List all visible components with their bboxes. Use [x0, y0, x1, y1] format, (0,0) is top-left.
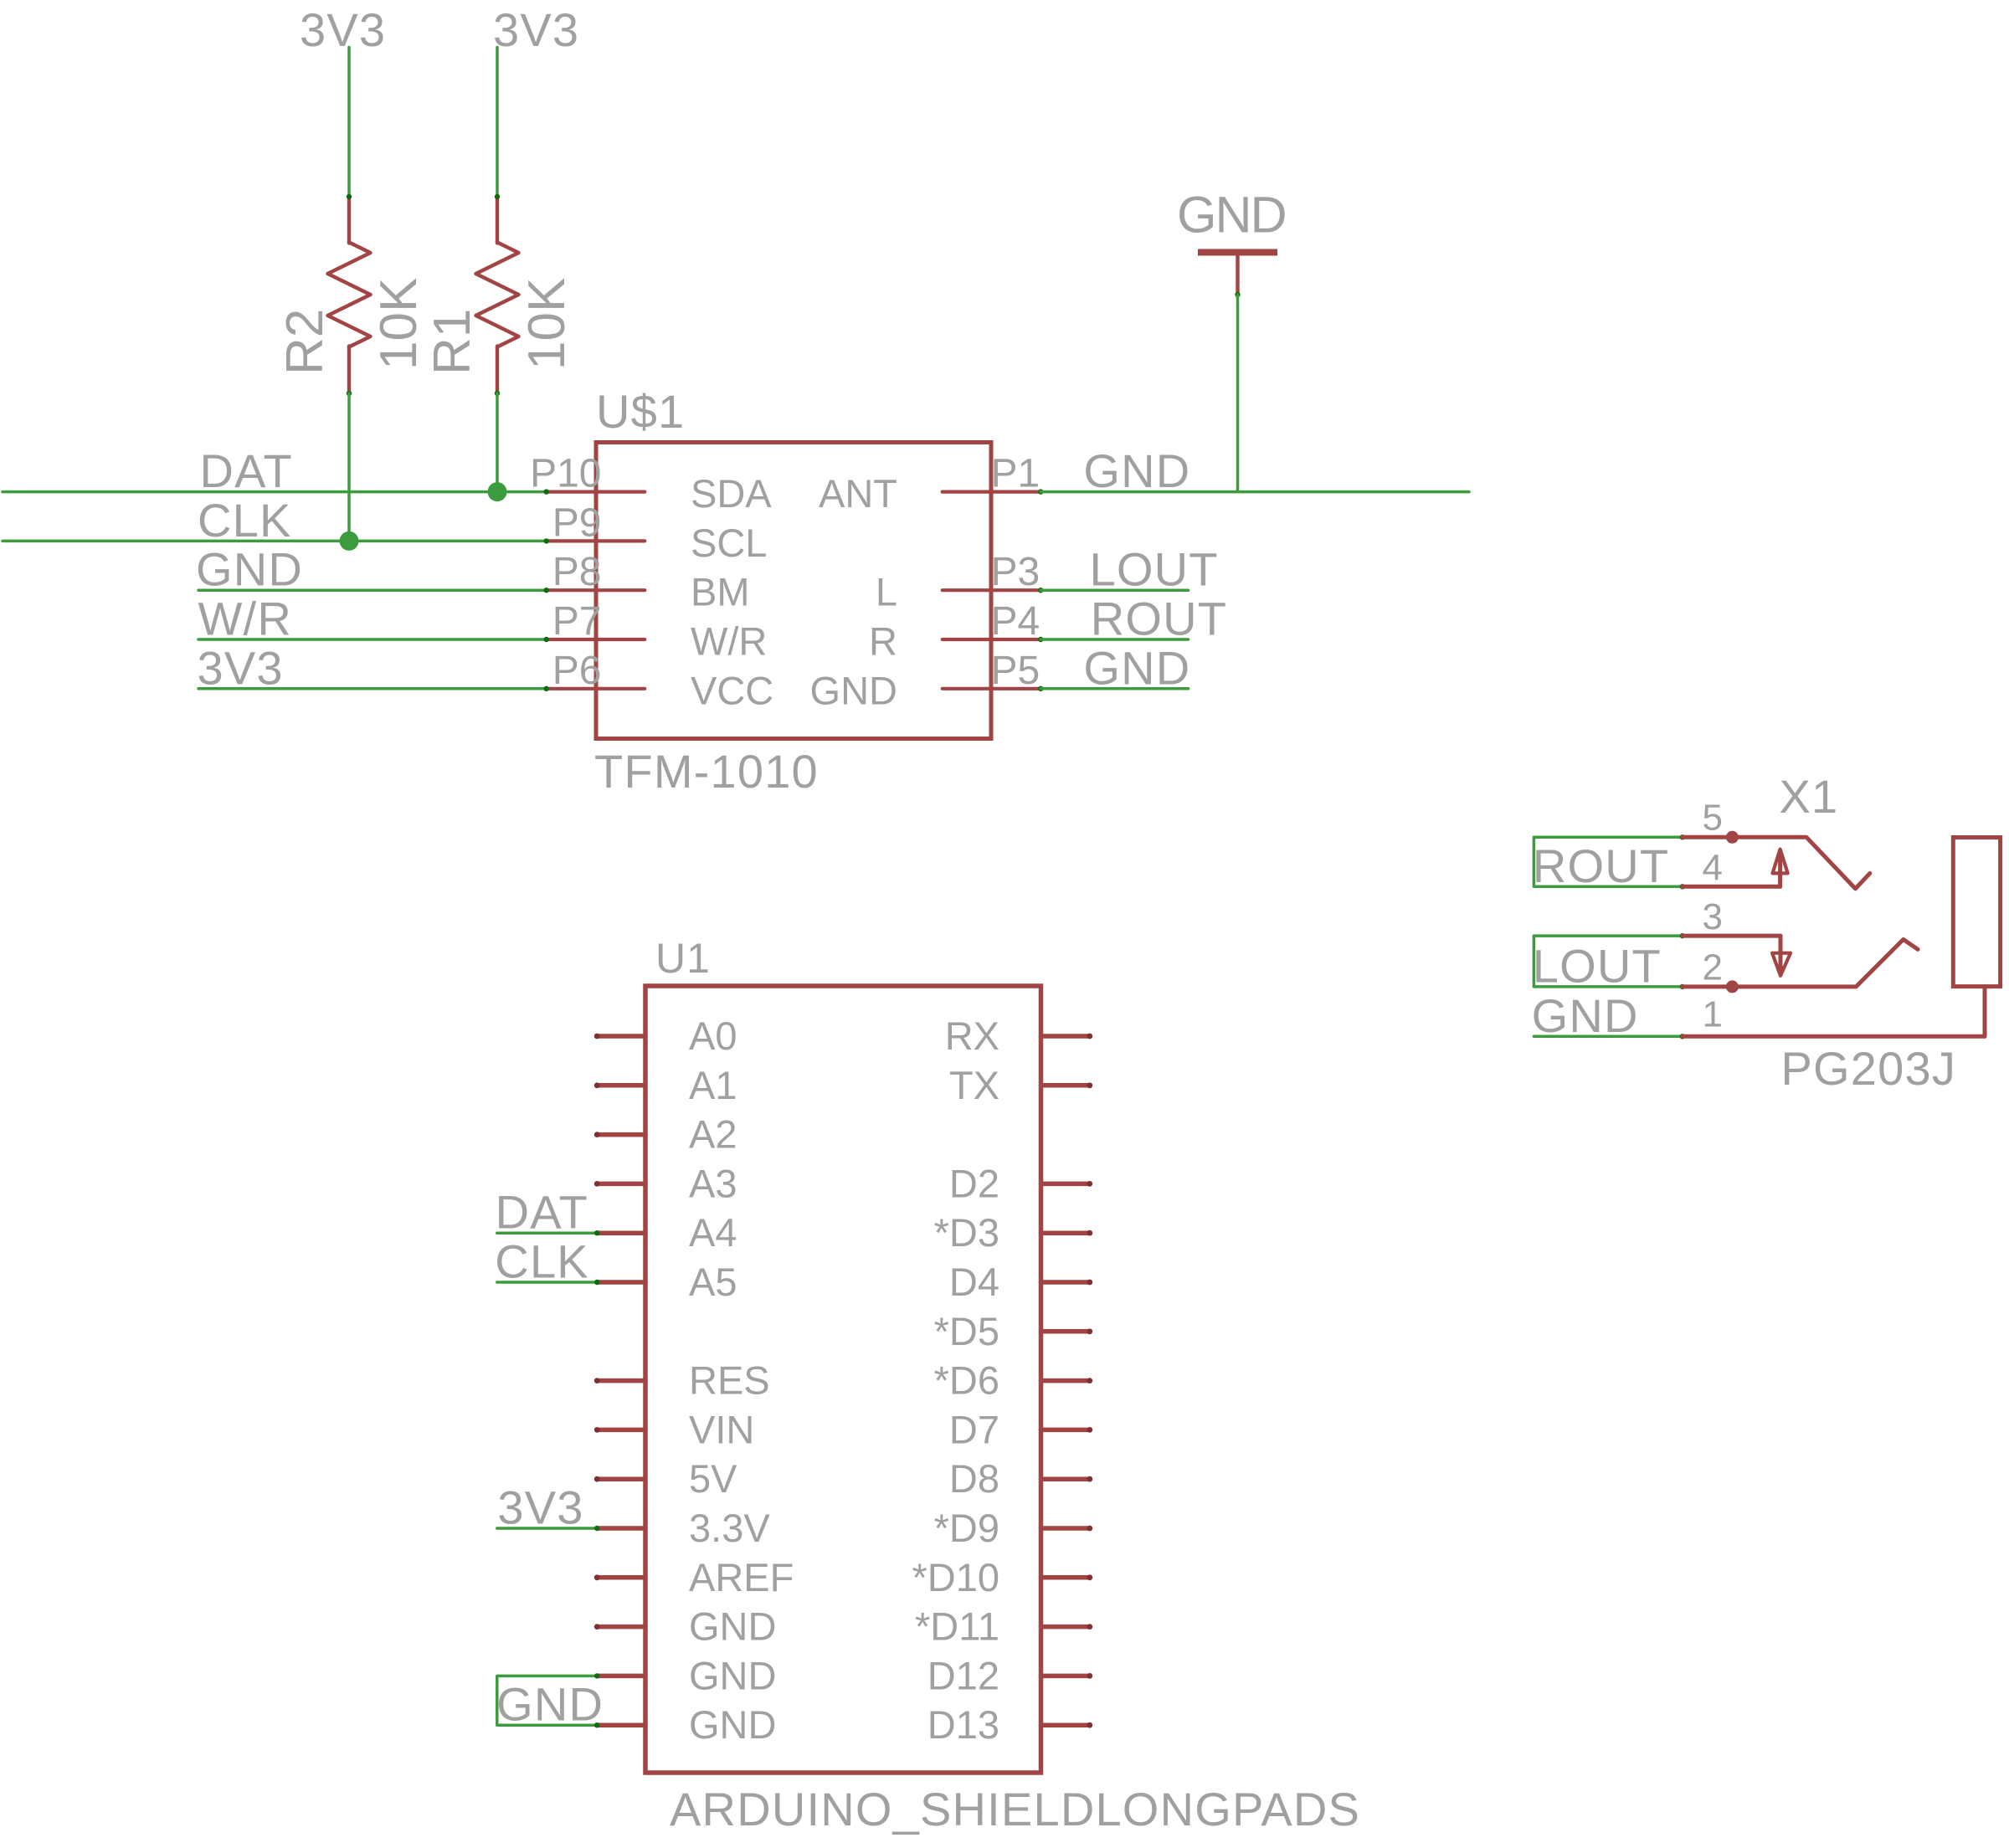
- U$1 pad number P7: [552, 599, 602, 644]
- U1 pin A3 (left): [594, 1161, 737, 1205]
- svg-text:GND: GND: [1083, 444, 1190, 497]
- X1 pin number 4: [1703, 848, 1723, 889]
- ground symbol GND (top right): [1177, 187, 1286, 298]
- U$1 pad number P10: [530, 452, 601, 496]
- IC U1 ARDUINO_SHIELDLONGPADS body: [645, 986, 1041, 1773]
- svg-text:*D10: *D10: [912, 1555, 999, 1599]
- svg-text:R2: R2: [276, 309, 334, 375]
- U1 pin A4 (left): [597, 1210, 737, 1255]
- svg-text:U$1: U$1: [596, 385, 685, 438]
- svg-text:P5: P5: [991, 649, 1040, 693]
- U1 pin GND (left): [597, 1653, 776, 1697]
- wire 3V3 to R2: [347, 48, 351, 198]
- U1 pin AREF (left): [594, 1555, 794, 1599]
- svg-text:4: 4: [1703, 848, 1723, 889]
- supply 3V3 (for R2): [300, 3, 386, 56]
- U1 pin D8 (right): [949, 1456, 1092, 1501]
- svg-text:BM: BM: [691, 570, 750, 614]
- svg-text:X1: X1: [1780, 770, 1839, 823]
- svg-text:3V3: 3V3: [493, 3, 579, 56]
- svg-text:A4: A4: [689, 1210, 737, 1255]
- U1 pin *D9 (right): [934, 1506, 1093, 1550]
- U$1 pin P6 (VCC): [544, 668, 774, 712]
- resistor R2 10K: [276, 194, 428, 396]
- svg-text:D7: D7: [949, 1407, 999, 1451]
- X1 pin number 1: [1703, 994, 1723, 1035]
- svg-text:P3: P3: [991, 550, 1040, 594]
- svg-text:A2: A2: [689, 1112, 737, 1157]
- U1 pin *D11 (right): [915, 1604, 1092, 1649]
- svg-text:P7: P7: [552, 599, 602, 644]
- connector X1 label: [1780, 770, 1839, 823]
- svg-text:D8: D8: [949, 1456, 999, 1501]
- svg-text:SCL: SCL: [691, 521, 767, 565]
- svg-text:A0: A0: [689, 1014, 737, 1058]
- svg-text:D12: D12: [927, 1653, 999, 1697]
- label GND (left): [196, 543, 303, 596]
- svg-text:3.3V: 3.3V: [689, 1506, 770, 1550]
- svg-text:ROUT: ROUT: [1533, 839, 1669, 892]
- U$1 pin P4 (R): [869, 619, 1043, 664]
- U$1 pad number P9: [552, 501, 602, 545]
- net DAT wire: [3, 490, 547, 494]
- svg-text:3: 3: [1703, 896, 1723, 937]
- svg-text:DAT: DAT: [496, 1186, 588, 1239]
- label 3V3 (U1): [497, 1481, 583, 1534]
- label CLK (U1): [495, 1235, 589, 1288]
- wire GND symbol to net: [1236, 295, 1240, 492]
- svg-text:*D5: *D5: [934, 1309, 999, 1353]
- U1 pin *D5 (right): [934, 1309, 1093, 1353]
- junction on CLK: [340, 531, 359, 551]
- svg-text:VIN: VIN: [689, 1407, 754, 1451]
- U1 pin RES (left): [594, 1358, 770, 1403]
- U1 pin 5V (left): [594, 1456, 737, 1501]
- svg-text:1: 1: [1703, 994, 1723, 1035]
- svg-text:ARDUINO_SHIELDLONGPADS: ARDUINO_SHIELDLONGPADS: [670, 1783, 1360, 1835]
- net GND wire (right of P1): [1040, 490, 1469, 494]
- svg-text:W/R: W/R: [691, 619, 767, 664]
- U$1 pin P5 (GND): [810, 668, 1044, 712]
- label ROUT: [1091, 593, 1227, 645]
- svg-text:CLK: CLK: [198, 494, 292, 547]
- wire 3V3 to R1: [496, 48, 499, 198]
- label LOUT (X1): [1533, 939, 1662, 992]
- X1 pin 4 tip contact with arrow: [1683, 850, 1788, 887]
- net W/R wire: [198, 638, 547, 641]
- U$1 pad number P8: [552, 550, 602, 594]
- svg-text:A5: A5: [689, 1260, 737, 1304]
- label GND (right of P1): [1083, 444, 1190, 497]
- X1 pin number 5: [1703, 798, 1723, 839]
- label ROUT (X1): [1533, 839, 1669, 892]
- svg-text:3V3: 3V3: [497, 1481, 583, 1534]
- net 3V3 wire (left): [198, 687, 547, 690]
- U1 pin A2 (left): [594, 1112, 737, 1157]
- svg-text:U1: U1: [655, 935, 711, 982]
- U$1 pad number P4: [991, 599, 1040, 644]
- U$1 pin P1 (ANT): [819, 471, 1044, 516]
- svg-text:W/R: W/R: [198, 593, 292, 645]
- svg-text:GND: GND: [810, 668, 897, 712]
- U$1 pad number P3: [991, 550, 1040, 594]
- label DAT (U1): [496, 1186, 588, 1239]
- net DAT wire (U1 A4): [497, 1230, 600, 1235]
- net GND wire (X1 pin 1): [1534, 1034, 1685, 1039]
- U1 pin A1 (left): [594, 1063, 737, 1107]
- svg-text:GND: GND: [1177, 187, 1286, 244]
- svg-text:GND: GND: [689, 1653, 776, 1697]
- label W/R: [198, 593, 292, 645]
- svg-text:A1: A1: [689, 1063, 737, 1107]
- label DAT: [200, 444, 293, 497]
- U1 pin *D3 (right): [934, 1210, 1093, 1255]
- X1 pin number 3: [1703, 896, 1723, 937]
- label GND (X1): [1532, 989, 1639, 1042]
- net LOUT wire: [1040, 588, 1188, 592]
- net GND wire (left): [198, 588, 547, 592]
- svg-text:10K: 10K: [518, 278, 576, 370]
- svg-text:R: R: [869, 619, 897, 664]
- svg-text:3V3: 3V3: [300, 3, 386, 56]
- U$1 pad number P5: [991, 649, 1040, 693]
- U1 pin D7 (right): [949, 1407, 1092, 1451]
- supply 3V3 (for R1): [493, 3, 579, 56]
- svg-text:ANT: ANT: [819, 471, 897, 516]
- value ARDUINO_SHIELDLONGPADS: [670, 1783, 1360, 1835]
- svg-text:PG203J: PG203J: [1781, 1042, 1957, 1095]
- svg-text:D2: D2: [949, 1161, 999, 1205]
- U1 pin A5 (left): [597, 1260, 737, 1304]
- U$1 pin P10 (SDA): [544, 471, 773, 516]
- svg-text:R1: R1: [424, 309, 481, 375]
- svg-text:SDA: SDA: [691, 471, 772, 516]
- U$1 pad number P1: [991, 452, 1040, 496]
- svg-text:D13: D13: [927, 1702, 999, 1747]
- svg-text:GND: GND: [196, 543, 303, 596]
- svg-text:RES: RES: [689, 1358, 770, 1403]
- net CLK wire (U1 A5): [497, 1280, 600, 1285]
- svg-text:CLK: CLK: [495, 1235, 589, 1288]
- label CLK: [198, 494, 292, 547]
- svg-text:AREF: AREF: [689, 1555, 794, 1599]
- svg-text:P6: P6: [552, 649, 602, 693]
- wire R2 to CLK net: [347, 393, 351, 541]
- U1 pin GND (left): [594, 1604, 777, 1649]
- svg-text:5V: 5V: [689, 1456, 737, 1501]
- svg-text:VCC: VCC: [691, 668, 773, 712]
- U1 pin D4 (right): [949, 1260, 1092, 1304]
- value TFM-1010: [594, 745, 819, 798]
- junction on DAT: [488, 482, 507, 501]
- net LOUT wire loop (X1 pins 3,2): [1534, 933, 1685, 989]
- svg-text:A3: A3: [689, 1161, 737, 1205]
- svg-text:3V3: 3V3: [198, 641, 284, 694]
- svg-text:GND: GND: [496, 1678, 604, 1731]
- U1 pin *D10 (right): [912, 1555, 1092, 1599]
- svg-text:*D3: *D3: [934, 1210, 999, 1255]
- U$1 pin P8 (BM): [544, 570, 750, 614]
- svg-text:P8: P8: [552, 550, 602, 594]
- label U$1: [596, 385, 685, 438]
- net ROUT wire loop (X1 pins 5,4): [1534, 834, 1685, 889]
- label 3V3 (left): [198, 641, 284, 694]
- X1 pin number 2: [1703, 947, 1723, 988]
- svg-text:P10: P10: [530, 452, 601, 496]
- svg-text:GND: GND: [689, 1702, 776, 1747]
- svg-text:GND: GND: [689, 1604, 776, 1649]
- U$1 pin P7 (W/R): [544, 619, 768, 664]
- svg-text:DAT: DAT: [200, 444, 293, 497]
- label LOUT: [1090, 543, 1219, 596]
- U1 pin D12 (right): [927, 1653, 1092, 1697]
- U1 pin D2 (right): [949, 1161, 1092, 1205]
- svg-text:LOUT: LOUT: [1533, 939, 1662, 992]
- U$1 pad number P6: [552, 649, 602, 693]
- svg-text:D4: D4: [949, 1260, 999, 1304]
- U$1 pin P3 (L): [876, 570, 1044, 614]
- U1 pin RX (right): [945, 1014, 1092, 1058]
- label U1: [655, 935, 711, 982]
- U1 pin *D6 (right): [934, 1358, 1093, 1403]
- U1 pin D13 (right): [927, 1702, 1092, 1747]
- net 3V3 wire (U1 3.3V): [497, 1526, 600, 1531]
- label GND (P5): [1083, 641, 1190, 694]
- net CLK wire: [3, 540, 547, 543]
- U1 pin GND (left): [597, 1702, 776, 1747]
- X1 pin 2 switch arm: [1683, 939, 1918, 993]
- svg-text:P1: P1: [991, 452, 1040, 496]
- svg-text:*D9: *D9: [934, 1506, 999, 1550]
- svg-text:2: 2: [1703, 947, 1723, 988]
- net GND wire loop (U1 GND pins): [497, 1673, 600, 1727]
- U1 pin TX (right): [949, 1063, 1092, 1107]
- svg-text:*D6: *D6: [934, 1358, 999, 1403]
- net ROUT wire: [1040, 638, 1188, 641]
- svg-text:ROUT: ROUT: [1091, 593, 1227, 645]
- label GND (U1): [496, 1678, 604, 1731]
- svg-text:GND: GND: [1083, 641, 1190, 694]
- U1 pin VIN (left): [594, 1407, 755, 1451]
- wire R1 to DAT net: [496, 393, 499, 492]
- U$1 pin P9 (SCL): [544, 521, 768, 565]
- svg-text:RX: RX: [945, 1014, 999, 1058]
- resistor R1 10K: [424, 194, 576, 396]
- net GND wire (P5): [1040, 687, 1188, 690]
- svg-text:*D11: *D11: [915, 1604, 999, 1649]
- svg-text:P9: P9: [552, 501, 602, 545]
- svg-text:GND: GND: [1532, 989, 1639, 1042]
- svg-text:P4: P4: [991, 599, 1040, 644]
- svg-text:TFM-1010: TFM-1010: [594, 745, 819, 798]
- svg-text:TX: TX: [949, 1063, 999, 1107]
- value PG203J: [1781, 1042, 1957, 1095]
- svg-text:LOUT: LOUT: [1090, 543, 1219, 596]
- svg-text:5: 5: [1703, 798, 1723, 839]
- U1 pin A0 (left): [594, 1014, 737, 1058]
- X1 pin 1 sleeve wire: [1683, 987, 1985, 1037]
- svg-text:L: L: [876, 570, 897, 614]
- X1 pin 3 ring contact with arrow: [1683, 936, 1791, 976]
- X1 sleeve body rectangle: [1953, 838, 2000, 987]
- U1 pin 3.3V (left): [597, 1506, 770, 1550]
- IC U$1 TFM-1010 body: [596, 443, 991, 739]
- X1 pin 5 switch arm: [1683, 831, 1870, 889]
- svg-text:10K: 10K: [370, 278, 428, 370]
